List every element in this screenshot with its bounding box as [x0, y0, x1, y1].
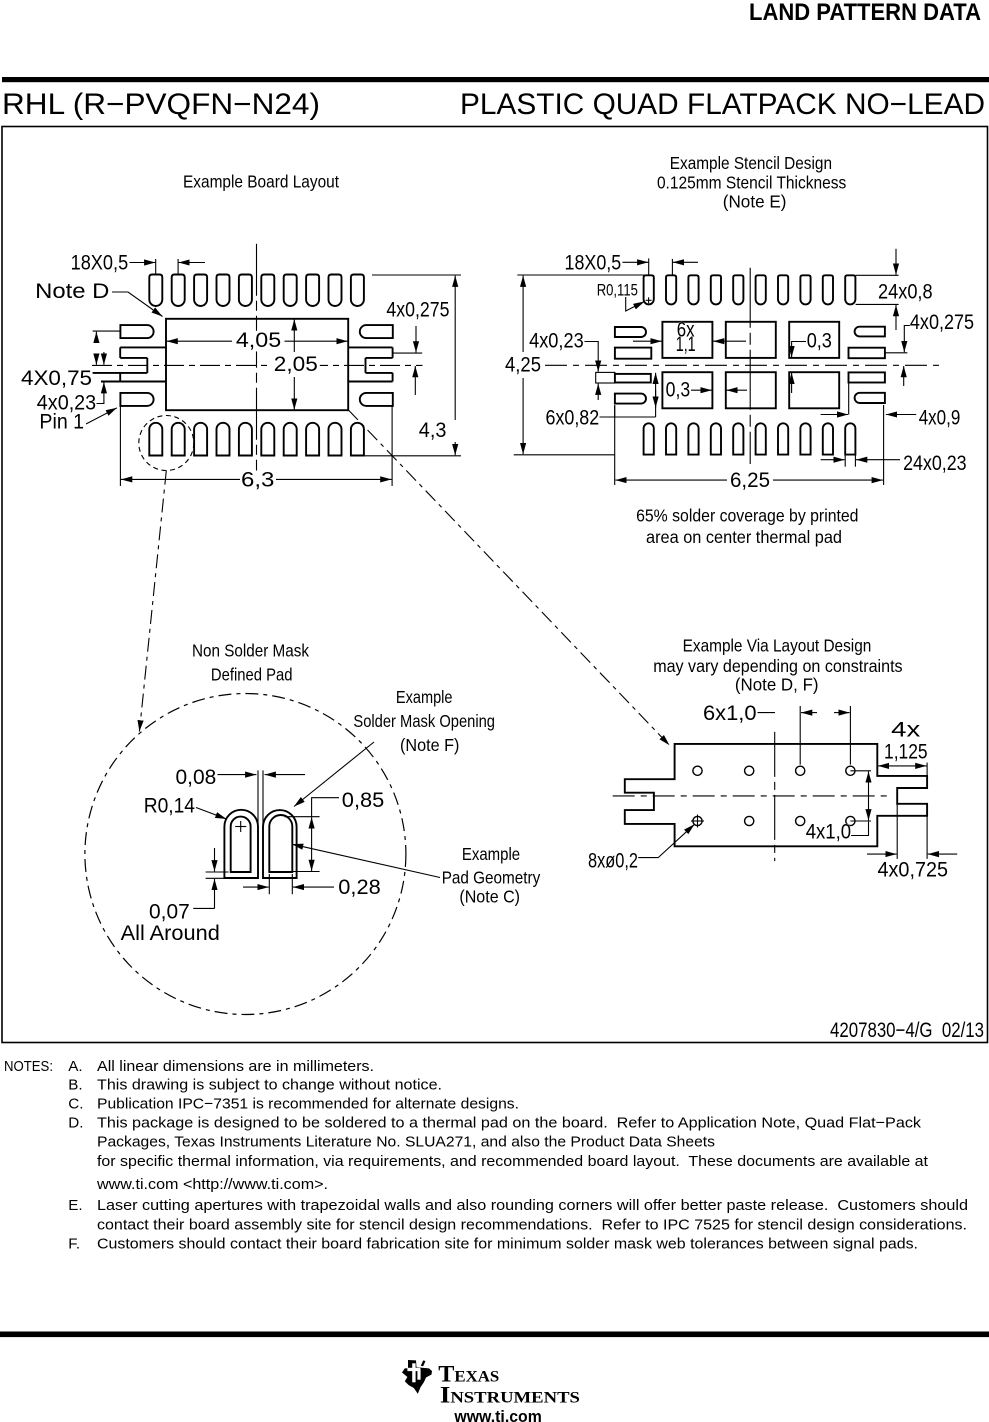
stencil right side aperture upper — [855, 327, 885, 337]
board right outline steps and tie-bar pad — [348, 346, 392, 348]
board thermal pad rectangle 4.05x2.05 — [166, 319, 348, 410]
header rule — [2, 77, 989, 82]
detail left pad inner (copper pad) — [231, 817, 251, 872]
svg-text:Laser cutting apertures with t: Laser cutting apertures with trapezoidal… — [97, 1197, 968, 1214]
detail leader from zoom circle to detail view — [139, 471, 166, 732]
svg-text:6,25: 6,25 — [730, 469, 770, 492]
dimension 4,05 (board) — [234, 331, 283, 352]
svg-text:Example: Example — [462, 844, 520, 864]
svg-text:Defined Pad: Defined Pad — [211, 665, 293, 685]
svg-text:24x0,23: 24x0,23 — [903, 452, 967, 475]
svg-text:24x0,8: 24x0,8 — [878, 281, 933, 304]
mask web extension lines — [257, 770, 259, 826]
svg-text:0,85: 0,85 — [342, 789, 385, 812]
svg-text:4,25: 4,25 — [505, 353, 541, 376]
svg-text:R0,14: R0,14 — [144, 795, 196, 818]
svg-text:0,07: 0,07 — [149, 901, 190, 924]
svg-text:0,3: 0,3 — [666, 379, 691, 402]
detail left pad outer (solder mask opening) — [224, 810, 258, 878]
svg-text:4x0,23: 4x0,23 — [529, 330, 584, 353]
via holes bottom row — [745, 816, 754, 825]
svg-text:B.: B. — [68, 1077, 82, 1094]
board right side pad lower — [360, 393, 393, 406]
svg-text:Non Solder Mask: Non Solder Mask — [192, 641, 309, 661]
svg-text:A.: A. — [68, 1058, 82, 1075]
svg-text:www.ti.com: www.ti.com — [453, 1408, 541, 1422]
detail leader from board corner to via layout view — [348, 410, 669, 746]
footer rule — [0, 1332, 989, 1338]
svg-text:65% solder coverage by printed: 65% solder coverage by printed — [636, 506, 858, 526]
via hole datum with center cross — [693, 816, 702, 825]
svg-text:F.: F. — [68, 1235, 80, 1252]
stencil left small tab 0,23 — [596, 372, 615, 383]
svg-text:0.125mm Stencil Thickness: 0.125mm Stencil Thickness — [657, 173, 846, 193]
svg-text:Instruments: Instruments — [440, 1383, 580, 1408]
svg-text:1,1: 1,1 — [676, 333, 696, 356]
via horizontal centerline — [613, 795, 888, 797]
svg-text:This package is designed to be: This package is designed to be soldered … — [97, 1114, 921, 1131]
svg-text:(Note D, F): (Note D, F) — [735, 675, 819, 695]
svg-text:4x: 4x — [891, 719, 921, 742]
svg-text:6x0,82: 6x0,82 — [546, 407, 600, 430]
dimension 6,3 (board) — [239, 471, 276, 492]
svg-text:Pin 1: Pin 1 — [39, 411, 84, 434]
svg-text:Solder Mask Opening: Solder Mask Opening — [353, 711, 495, 731]
svg-text:4x0,725: 4x0,725 — [878, 859, 949, 882]
svg-text:Pad Geometry: Pad Geometry — [442, 868, 541, 888]
board top pad row (10 pads) — [149, 275, 162, 307]
svg-text:www.ti.com <http://www.ti.com>: www.ti.com <http://www.ti.com>. — [96, 1176, 328, 1193]
svg-text:(Note F): (Note F) — [400, 735, 459, 755]
svg-text:All linear dimensions are in m: All linear dimensions are in millimeters… — [97, 1058, 374, 1075]
svg-text:4x1,0: 4x1,0 — [806, 821, 851, 844]
svg-text:Customers should contact their: Customers should contact their board fab… — [97, 1235, 918, 1252]
board left side pad upper — [120, 325, 153, 338]
board left side pad lower — [120, 393, 153, 406]
stencil thermal apertures 6x 1,1x0,82 — [662, 322, 712, 358]
detail right pad inner (copper pad) — [269, 815, 292, 872]
via pattern outline with side tie bars — [625, 744, 927, 846]
detail right pad outer (solder mask opening) — [263, 810, 297, 878]
svg-text:R0,115: R0,115 — [597, 282, 638, 300]
board right side pad upper — [360, 325, 393, 338]
svg-text:E.: E. — [68, 1197, 82, 1214]
svg-text:Packages, Texas Instruments Li: Packages, Texas Instruments Literature N… — [97, 1134, 715, 1151]
svg-text:4,3: 4,3 — [419, 419, 447, 442]
svg-text:Example: Example — [396, 687, 453, 707]
via holes top row — [693, 766, 702, 775]
svg-text:All Around: All Around — [121, 922, 220, 945]
svg-text:Example Stencil Design: Example Stencil Design — [670, 153, 832, 173]
stencil bottom aperture row (10) — [644, 423, 654, 454]
svg-text:RHL (R−PVQFN−N24): RHL (R−PVQFN−N24) — [2, 88, 320, 121]
svg-text:for specific thermal informati: for specific thermal information, via re… — [97, 1153, 929, 1170]
svg-text:(Note E): (Note E) — [723, 192, 787, 212]
stencil top aperture row (10) — [644, 275, 654, 304]
TI Texas logo mark — [402, 1360, 432, 1394]
detail left pad center mark — [235, 826, 246, 828]
svg-text:0,28: 0,28 — [338, 876, 380, 899]
svg-text:4x0,9: 4x0,9 — [919, 407, 961, 430]
detail boundary circle — [85, 694, 406, 1015]
svg-text:6,3: 6,3 — [241, 469, 274, 492]
svg-text:1,125: 1,125 — [884, 741, 928, 764]
board vertical centerline — [256, 244, 258, 489]
svg-text:Example Via Layout Design: Example Via Layout Design — [683, 636, 872, 656]
svg-text:8xø0,2: 8xø0,2 — [588, 850, 638, 873]
board bottom pad row (10 pads) — [149, 423, 162, 456]
via vertical centerline — [774, 732, 776, 861]
dimension 2,05 (board) — [272, 355, 320, 376]
stencil left side aperture upper — [615, 327, 646, 337]
stencil left tie rect upper — [615, 348, 651, 359]
svg-text:Example Board Layout: Example Board Layout — [183, 172, 339, 192]
svg-text:4207830−4/G 02/13: 4207830−4/G 02/13 — [830, 1019, 984, 1042]
svg-text:LAND PATTERN DATA: LAND PATTERN DATA — [749, 0, 981, 26]
stencil vertical centerline — [749, 268, 751, 464]
svg-text:This drawing is subject to cha: This drawing is subject to change withou… — [97, 1077, 442, 1094]
svg-text:may vary depending on constrai: may vary depending on constraints — [653, 656, 903, 676]
svg-text:4x0,275: 4x0,275 — [386, 299, 449, 322]
svg-text:18X0,5: 18X0,5 — [565, 252, 622, 275]
stencil right tie rect upper — [849, 348, 885, 359]
drawing frame — [2, 127, 988, 1043]
svg-text:4x0,275: 4x0,275 — [910, 311, 974, 334]
stencil left side aperture lower — [615, 394, 646, 404]
svg-text:(Note C): (Note C) — [459, 887, 520, 907]
svg-text:NOTES:: NOTES: — [4, 1058, 53, 1075]
svg-text:area on center thermal pad: area on center thermal pad — [646, 527, 842, 547]
stencil horizontal centerline — [545, 364, 940, 366]
svg-text:Publication IPC−7351 is recomm: Publication IPC−7351 is recommended for … — [97, 1095, 519, 1112]
svg-text:4,05: 4,05 — [236, 329, 281, 352]
svg-text:0,3: 0,3 — [807, 330, 832, 353]
svg-text:PLASTIC QUAD FLATPACK NO−LEAD: PLASTIC QUAD FLATPACK NO−LEAD — [460, 88, 985, 121]
svg-text:2,05: 2,05 — [274, 353, 318, 376]
svg-text:4X0,75: 4X0,75 — [21, 367, 92, 390]
svg-text:0,08: 0,08 — [176, 766, 217, 789]
detail zoom circle on board bottom pads — [139, 416, 194, 471]
svg-text:C.: C. — [68, 1095, 83, 1112]
board horizontal centerline — [92, 364, 423, 366]
svg-text:contact their board assembly s: contact their board assembly site for st… — [97, 1216, 967, 1233]
svg-text:18X0,5: 18X0,5 — [71, 252, 129, 275]
svg-text:6x1,0: 6x1,0 — [703, 702, 757, 725]
board left outline steps and tie-bar pad — [120, 346, 166, 348]
stencil left tie rect lower — [615, 374, 651, 383]
svg-text:D.: D. — [68, 1114, 83, 1131]
svg-text:Note D: Note D — [35, 280, 109, 303]
stencil right side aperture lower — [855, 393, 885, 403]
stencil right tie rect lower — [849, 372, 885, 382]
